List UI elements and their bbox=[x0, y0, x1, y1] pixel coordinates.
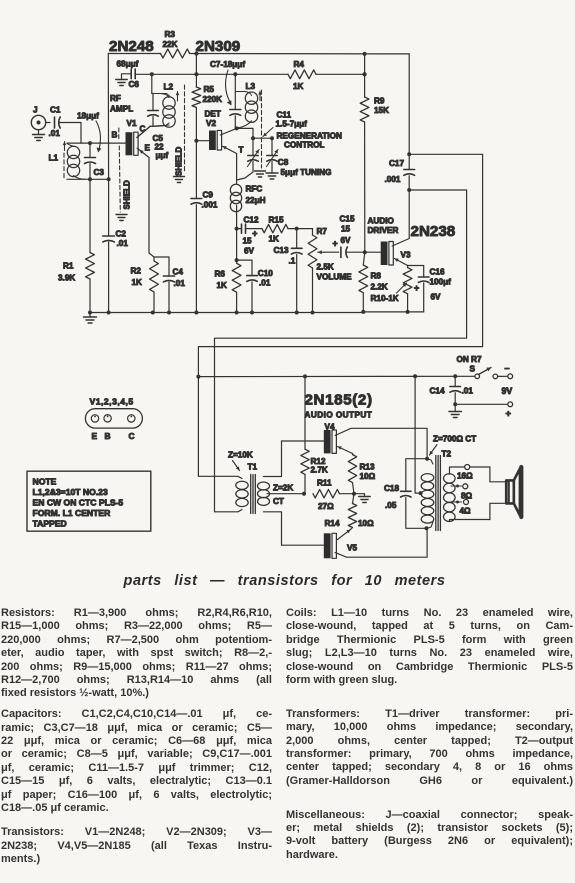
ground main rail bbox=[89, 313, 91, 318]
svg-text:V2: V2 bbox=[206, 119, 216, 128]
svg-text:6V: 6V bbox=[244, 247, 255, 256]
svg-text:.001: .001 bbox=[202, 201, 218, 210]
svg-text:V1: V1 bbox=[127, 119, 137, 128]
svg-text:1K: 1K bbox=[293, 82, 304, 91]
svg-text:C18: C18 bbox=[384, 484, 399, 493]
svg-text:–: – bbox=[505, 363, 510, 373]
capacitor C16 bbox=[408, 266, 424, 278]
resistor R5 bbox=[192, 87, 201, 108]
transistor V5 bbox=[324, 533, 331, 558]
wire signal loop inner bbox=[215, 190, 467, 512]
transformer T1 core bbox=[250, 475, 252, 514]
svg-text:AUDIO OUTPUT: AUDIO OUTPUT bbox=[305, 411, 373, 420]
svg-text:SHIELD: SHIELD bbox=[123, 180, 132, 210]
svg-text:C10: C10 bbox=[258, 269, 273, 278]
svg-text:.01: .01 bbox=[174, 279, 186, 288]
node T1 CT bbox=[302, 492, 306, 496]
wire C1 to tank bbox=[59, 123, 81, 144]
ground R11 junction bbox=[354, 494, 365, 497]
svg-text:C6: C6 bbox=[129, 80, 140, 89]
svg-text:VOLUME: VOLUME bbox=[317, 273, 353, 282]
V2 base lead bbox=[196, 140, 209, 142]
wire base line bbox=[67, 142, 126, 144]
svg-text:R11: R11 bbox=[317, 479, 332, 488]
svg-text:TAPPED: TAPPED bbox=[33, 519, 67, 529]
V4 collector lead bbox=[335, 428, 427, 458]
svg-text:L1,2&3=10T NO.23: L1,2&3=10T NO.23 bbox=[33, 487, 108, 497]
svg-text:6V: 6V bbox=[431, 293, 442, 302]
svg-text:9V: 9V bbox=[502, 386, 513, 396]
svg-text:C7-18μμf: C7-18μμf bbox=[210, 60, 245, 69]
wire tank bottom node bbox=[150, 123, 169, 126]
wire speaker top bbox=[490, 467, 506, 482]
svg-text:1K: 1K bbox=[217, 281, 228, 290]
svg-text:C15: C15 bbox=[340, 215, 355, 224]
svg-text:E: E bbox=[145, 144, 151, 153]
svg-text:R15: R15 bbox=[269, 216, 284, 225]
trimmer C11 T bbox=[252, 138, 254, 155]
transistor V1 bbox=[126, 132, 133, 155]
svg-text:4Ω: 4Ω bbox=[460, 507, 472, 516]
svg-text:R9: R9 bbox=[374, 97, 385, 106]
svg-text:E: E bbox=[92, 431, 98, 441]
svg-text:2N185(2): 2N185(2) bbox=[305, 392, 373, 409]
C11 T bottom lead bbox=[237, 162, 253, 181]
transformer T1 secondary bbox=[258, 482, 270, 490]
svg-text:C11: C11 bbox=[277, 111, 292, 120]
node V3 base bbox=[363, 250, 367, 254]
coil L2 bbox=[163, 97, 175, 109]
transformer T2 core bbox=[435, 456, 437, 531]
svg-text:16Ω: 16Ω bbox=[457, 472, 473, 481]
slug arrow L2 bbox=[177, 92, 179, 102]
V5 collector lead bbox=[335, 528, 427, 557]
svg-text:C16: C16 bbox=[430, 268, 445, 277]
svg-text:CT: CT bbox=[273, 497, 284, 506]
svg-text:CONTROL: CONTROL bbox=[284, 141, 324, 150]
svg-text:DET: DET bbox=[205, 110, 221, 119]
svg-text:15: 15 bbox=[341, 225, 351, 234]
svg-text:V3: V3 bbox=[401, 251, 411, 260]
wire R11 right bbox=[340, 493, 355, 495]
V3 emitter lead bbox=[395, 259, 408, 266]
V1 emitter lead bbox=[140, 150, 150, 158]
svg-text:18μμf: 18μμf bbox=[77, 112, 99, 121]
svg-text:220K: 220K bbox=[203, 95, 223, 104]
capacitor C2 bbox=[108, 179, 110, 236]
C6 ground lead bbox=[122, 74, 132, 80]
svg-text:C4: C4 bbox=[173, 268, 184, 277]
svg-text:J: J bbox=[33, 106, 38, 115]
V2 emitter lead bbox=[223, 146, 237, 153]
V4 emitter lead bbox=[338, 447, 353, 454]
transformer T2 primary bbox=[421, 474, 434, 482]
capacitor C4 bbox=[168, 257, 170, 276]
resistor R1 bbox=[89, 179, 91, 252]
wire V2 column bbox=[195, 54, 197, 87]
capacitor C7 bbox=[234, 74, 236, 109]
resistor R8 bbox=[363, 252, 365, 265]
wire left vertical bbox=[107, 54, 109, 180]
node R2 C4 bbox=[154, 256, 169, 258]
shield dash L3 bbox=[261, 90, 263, 168]
capacitor C1 bbox=[54, 117, 56, 128]
capacitor C14 bbox=[454, 376, 456, 386]
svg-text:22K: 22K bbox=[163, 40, 178, 49]
slug arrow L1 bbox=[64, 142, 66, 151]
wire R15 to R7 bbox=[288, 228, 297, 230]
svg-text:22μH: 22μH bbox=[246, 196, 266, 205]
svg-text:R6: R6 bbox=[215, 270, 226, 279]
node tank top bbox=[88, 141, 92, 145]
switch S bbox=[475, 374, 480, 379]
svg-text:C17: C17 bbox=[389, 159, 404, 168]
V5 emitter lead bbox=[338, 530, 351, 540]
transistor V2 bbox=[209, 131, 216, 151]
shield dash V1 bbox=[118, 128, 120, 141]
svg-text:.01: .01 bbox=[49, 129, 61, 138]
svg-text:REGENERATION: REGENERATION bbox=[277, 132, 342, 141]
capacitor C6 bbox=[130, 69, 132, 79]
capacitor C18 bbox=[406, 459, 427, 492]
svg-text:15K: 15K bbox=[374, 106, 389, 115]
svg-text:NOTE: NOTE bbox=[33, 477, 57, 487]
svg-text:C8: C8 bbox=[278, 158, 289, 167]
wire collector to trimmers bbox=[237, 128, 272, 138]
svg-text:RF: RF bbox=[110, 94, 121, 103]
svg-text:100μf: 100μf bbox=[430, 278, 452, 287]
svg-text:.05: .05 bbox=[385, 501, 397, 510]
svg-text:ON R7: ON R7 bbox=[457, 355, 482, 364]
svg-text:T1: T1 bbox=[248, 463, 258, 472]
wire emitter down to RFC bbox=[236, 154, 238, 184]
svg-text:.001: .001 bbox=[385, 175, 401, 184]
svg-text:1.5-7μμf: 1.5-7μμf bbox=[276, 120, 308, 129]
svg-text:2.2K: 2.2K bbox=[371, 283, 388, 292]
wire tank bottom bbox=[67, 178, 109, 180]
svg-text:27Ω: 27Ω bbox=[318, 502, 334, 511]
capacitor C3 bbox=[89, 143, 91, 157]
svg-text:AMPL: AMPL bbox=[110, 105, 133, 114]
svg-text:6V: 6V bbox=[341, 236, 352, 245]
svg-text:V5: V5 bbox=[347, 544, 357, 553]
svg-text:15: 15 bbox=[243, 237, 253, 246]
svg-text:2N238: 2N238 bbox=[411, 223, 456, 240]
svg-text:R2: R2 bbox=[131, 267, 142, 276]
svg-text:2N248: 2N248 bbox=[109, 38, 154, 55]
wire L2 tank feed bbox=[151, 74, 153, 93]
wire bottom rail bbox=[90, 312, 363, 314]
svg-text:V1,2,3,4,5: V1,2,3,4,5 bbox=[90, 397, 134, 407]
svg-text:68μμf: 68μμf bbox=[117, 60, 139, 69]
svg-text:T2: T2 bbox=[442, 450, 452, 459]
svg-text:R13: R13 bbox=[360, 463, 375, 472]
wire supply line bbox=[198, 375, 474, 377]
resistor R13 bbox=[352, 454, 354, 455]
svg-text:R1: R1 bbox=[63, 262, 74, 271]
coaxial connector J bbox=[31, 115, 45, 129]
V4 base lead bbox=[282, 440, 324, 442]
tap 16 ohm bbox=[465, 465, 470, 470]
capacitor C5 sym bbox=[152, 94, 154, 111]
svg-text:+: + bbox=[506, 409, 512, 420]
trimmer C8 bbox=[271, 138, 273, 155]
V1 collector lead bbox=[137, 127, 150, 138]
svg-text:DRIVER: DRIVER bbox=[368, 226, 399, 235]
svg-text:FORM. L1 CENTER: FORM. L1 CENTER bbox=[33, 508, 112, 518]
svg-text:R7: R7 bbox=[317, 227, 328, 236]
transistor V3 bbox=[381, 242, 388, 266]
svg-text:1K: 1K bbox=[269, 235, 280, 244]
svg-text:R10-1K: R10-1K bbox=[371, 294, 399, 303]
wire T2 CT bbox=[415, 376, 421, 493]
svg-text:+: + bbox=[333, 238, 338, 248]
svg-text:μμf: μμf bbox=[156, 151, 169, 160]
resistor R6 bbox=[232, 263, 241, 292]
capacitor C17 bbox=[408, 54, 410, 170]
wire tank top node bbox=[152, 94, 170, 97]
svg-text:10Ω: 10Ω bbox=[360, 472, 376, 481]
svg-text:C12: C12 bbox=[244, 216, 259, 225]
svg-text:C14: C14 bbox=[430, 387, 445, 396]
resistor R3 bbox=[161, 49, 190, 58]
svg-text:AUDIO: AUDIO bbox=[368, 217, 395, 226]
transformer T2 secondary bbox=[444, 474, 456, 483]
transistor V4 bbox=[324, 430, 331, 453]
note box bbox=[27, 471, 151, 531]
svg-text:S: S bbox=[470, 365, 476, 374]
svg-text:B: B bbox=[112, 131, 118, 140]
ground below J bbox=[38, 130, 40, 135]
capacitor C13 bbox=[296, 229, 298, 249]
resistor R4 bbox=[288, 70, 316, 79]
svg-text:C2: C2 bbox=[116, 230, 127, 239]
shield ground V1 bbox=[116, 214, 127, 216]
coil L1 bbox=[67, 146, 79, 158]
slug arrow L3 bbox=[259, 91, 261, 101]
svg-text:.01: .01 bbox=[259, 279, 271, 288]
resistor R9 bbox=[360, 97, 369, 122]
wire V1 emitter down bbox=[149, 158, 154, 258]
resistor R10 bbox=[407, 266, 409, 268]
svg-text:C: C bbox=[129, 431, 135, 441]
tap 4 ohm bbox=[451, 501, 462, 503]
node RFC bottom bbox=[235, 227, 239, 231]
svg-text:B: B bbox=[105, 431, 111, 441]
speaker bbox=[506, 480, 514, 503]
svg-text:L3: L3 bbox=[246, 82, 256, 91]
svg-text:5μμf TUNING: 5μμf TUNING bbox=[281, 168, 332, 177]
svg-text:2.5K: 2.5K bbox=[317, 263, 334, 272]
ground C14 bbox=[454, 404, 456, 411]
R7 wiper arrow bbox=[318, 251, 325, 253]
svg-text:Z=2K: Z=2K bbox=[273, 484, 293, 493]
svg-text:EN CW ON CTC PLS-5: EN CW ON CTC PLS-5 bbox=[33, 498, 124, 508]
capacitor C12 bbox=[237, 228, 242, 230]
svg-text:Z=700Ω CT: Z=700Ω CT bbox=[433, 435, 476, 444]
resistor R15 bbox=[246, 228, 263, 230]
svg-text:L2: L2 bbox=[164, 83, 174, 92]
svg-text:1K: 1K bbox=[132, 278, 143, 287]
shield ground L2 bbox=[174, 176, 185, 178]
shield ground L3 bbox=[255, 170, 266, 172]
V5 base lead bbox=[282, 544, 324, 546]
svg-text:3.9K: 3.9K bbox=[58, 274, 75, 283]
svg-text:C9: C9 bbox=[203, 191, 214, 200]
V3 collector lead bbox=[392, 190, 409, 246]
svg-text:L1: L1 bbox=[49, 154, 59, 163]
svg-text:R4: R4 bbox=[294, 60, 305, 69]
tap 8 ohm bbox=[451, 485, 462, 487]
svg-text:RFC: RFC bbox=[246, 185, 263, 194]
resistor R2 bbox=[153, 257, 155, 261]
V3 base lead bbox=[365, 251, 381, 253]
svg-text:R8: R8 bbox=[371, 272, 382, 281]
node T2 bottom bbox=[425, 526, 429, 530]
svg-text:T: T bbox=[239, 146, 244, 155]
coil L3 bbox=[235, 91, 245, 93]
shield dash L1 bbox=[63, 153, 65, 179]
resistor R11 bbox=[313, 490, 340, 498]
svg-text:R5: R5 bbox=[204, 85, 215, 94]
svg-text:C1: C1 bbox=[50, 106, 61, 115]
coil RFC bbox=[230, 184, 241, 195]
svg-text:.1: .1 bbox=[289, 257, 296, 266]
svg-text:+: + bbox=[252, 228, 257, 238]
svg-text:SHIELD: SHIELD bbox=[175, 146, 184, 176]
svg-text:+: + bbox=[414, 283, 419, 293]
svg-text:R14: R14 bbox=[325, 519, 340, 528]
svg-text:2.7K: 2.7K bbox=[311, 466, 328, 475]
node T2 top bbox=[425, 457, 429, 461]
battery 9V bbox=[508, 374, 513, 379]
potentiometer R7 bbox=[312, 229, 314, 235]
wire R9 column bbox=[364, 54, 366, 97]
shield dash L2 bbox=[184, 85, 186, 173]
wire second rail bbox=[135, 73, 288, 75]
svg-text:Z=10K: Z=10K bbox=[228, 451, 253, 460]
wire speaker bottom bbox=[490, 503, 506, 519]
V1 collector to tank bbox=[137, 127, 150, 138]
svg-text:2N309: 2N309 bbox=[196, 38, 241, 55]
resistor R12 bbox=[304, 376, 306, 449]
wire battery plus bbox=[455, 403, 508, 405]
capacitor C10 bbox=[237, 260, 252, 276]
transformer T1 primary bbox=[198, 476, 242, 478]
V2 collector lead bbox=[220, 128, 236, 135]
resistor R14 bbox=[353, 494, 355, 504]
capacitor C15 bbox=[325, 251, 339, 253]
svg-text:.01: .01 bbox=[462, 387, 474, 396]
wire supply loop outer bbox=[198, 154, 482, 476]
svg-text:10Ω: 10Ω bbox=[358, 519, 374, 528]
wire top rail bbox=[108, 53, 160, 55]
svg-text:C3: C3 bbox=[94, 168, 105, 177]
capacitor C9 bbox=[195, 141, 197, 199]
svg-text:R3: R3 bbox=[165, 30, 176, 39]
svg-text:.01: .01 bbox=[117, 239, 129, 248]
svg-text:C13: C13 bbox=[274, 246, 289, 255]
wire R6 column bbox=[236, 229, 238, 264]
